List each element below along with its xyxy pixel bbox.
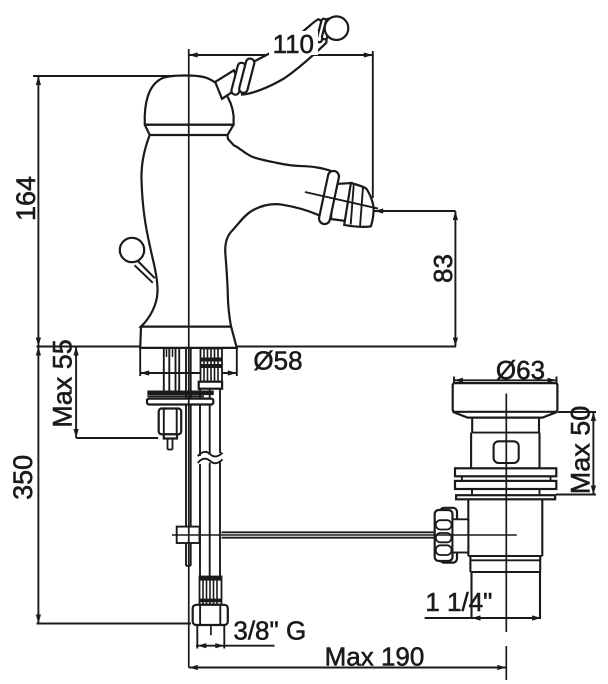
supply pipe collar — [199, 382, 222, 389]
dimension Max 190 — [189, 665, 507, 670]
spout aerator neck — [331, 183, 352, 221]
dimension O63 — [454, 377, 557, 385]
svg-text:Max 50: Max 50 — [565, 406, 595, 495]
knurl notch 2 — [436, 533, 452, 542]
drain flange — [453, 383, 558, 418]
svg-text:110: 110 — [273, 29, 314, 59]
washer 1 — [455, 468, 556, 476]
handle collar ring A — [231, 62, 247, 95]
gasket lower line — [147, 395, 204, 397]
dimension 1 1/4 — [425, 615, 541, 620]
rod centerline into drain — [172, 534, 517, 536]
svg-text:Max 190: Max 190 — [325, 642, 425, 672]
mounting stud tube — [164, 349, 179, 391]
supply nut 3/8 — [193, 605, 228, 625]
spout axis centerline — [305, 192, 378, 209]
drain body lower — [468, 499, 542, 572]
knurled nut scalloped face — [435, 510, 453, 561]
knurl notch 1 — [436, 520, 452, 529]
dimension 3/8 G — [196, 626, 275, 649]
drain tailpiece — [472, 572, 541, 618]
svg-text:Ø63: Ø63 — [496, 355, 545, 385]
drain upper tube — [472, 418, 539, 433]
faucet body with spout arm — [141, 135, 331, 327]
dimension Max 55 — [74, 347, 159, 439]
svg-text:1 1/4": 1 1/4" — [425, 587, 492, 617]
supply pipe centerline tick — [210, 625, 212, 635]
svg-text:83: 83 — [428, 254, 458, 283]
svg-text:Ø58: Ø58 — [253, 346, 302, 376]
svg-text:Max 55: Max 55 — [47, 339, 77, 428]
svg-text:3/8" G: 3/8" G — [233, 616, 306, 646]
body between washers — [472, 489, 540, 495]
linkage block — [177, 527, 200, 543]
spout collar ring — [318, 170, 340, 225]
knurl notch 3 — [436, 545, 452, 555]
pipe break symbol — [197, 452, 225, 465]
faucet handle grip — [241, 19, 326, 94]
dimension 83 — [374, 208, 458, 346]
reference base line — [37, 346, 457, 348]
aerator divider lines — [351, 184, 363, 227]
washer gap edges — [462, 476, 551, 481]
drain body upper — [471, 433, 539, 469]
mounting nut — [159, 409, 182, 439]
faucet centerline — [188, 49, 190, 668]
dimension 350 — [36, 347, 191, 624]
handle ball knob — [325, 16, 349, 40]
supply pipe threaded top — [201, 349, 223, 382]
washer 3 — [456, 495, 555, 499]
svg-text:164: 164 — [11, 176, 41, 221]
dimension 164 — [33, 76, 177, 347]
handle collar ring B — [238, 58, 255, 94]
rod tail below block — [186, 543, 191, 566]
pop-up knob ball — [120, 238, 144, 262]
washer 2 — [455, 481, 556, 489]
pop-up knob stem — [135, 261, 155, 283]
knurl connector block — [453, 519, 469, 552]
handle ferrule — [316, 18, 332, 43]
gasket washer (black) — [147, 391, 214, 396]
text 110 — [269, 29, 318, 59]
dimension O58 — [140, 349, 237, 377]
dimension Max 50 — [556, 412, 596, 495]
spout aerator barrel — [344, 183, 373, 227]
faucet handle stem — [215, 70, 240, 99]
mounting flange plate — [147, 399, 213, 405]
overflow hole — [494, 441, 519, 463]
faucet dome cap — [145, 75, 234, 124]
dome rim line — [145, 125, 234, 135]
knurled nut back plate — [440, 508, 457, 563]
dimension 110 line — [189, 51, 373, 198]
svg-text:350: 350 — [8, 455, 38, 500]
supply pipe body — [200, 389, 220, 577]
drain centerline — [505, 394, 507, 633]
stud tip below nut — [168, 439, 173, 450]
supply pipe thread bottom — [200, 577, 222, 605]
horizontal linkage rod — [222, 532, 436, 537]
faucet base — [140, 327, 237, 348]
pop-up rod below base — [186, 349, 191, 528]
